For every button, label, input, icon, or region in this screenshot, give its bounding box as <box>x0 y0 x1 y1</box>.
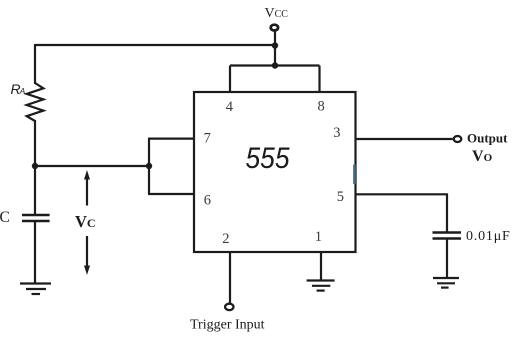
svg-text:5: 5 <box>337 189 344 205</box>
wire left vertical from top to resistor <box>34 44 36 84</box>
terminal Output circle <box>454 136 462 142</box>
wire top horizontal from RA to Vcc node <box>35 44 275 46</box>
node B junction dot (pins 6 and 7 tie) <box>146 163 152 169</box>
wire to pin 7 <box>148 138 194 140</box>
wire pin 5 horizontal <box>356 194 448 232</box>
svg-text:6: 6 <box>204 192 211 208</box>
svg-text:3: 3 <box>333 125 340 141</box>
node Vcc junction dot lower <box>272 62 278 68</box>
svg-text:8: 8 <box>318 98 325 114</box>
ground (pin 1) <box>307 281 335 291</box>
svg-text:VC: VC <box>75 212 96 231</box>
wire bracket vertical tying pin 7 to pin 6 <box>148 139 150 194</box>
svg-text:0.01μF: 0.01μF <box>466 229 511 244</box>
svg-text:C: C <box>0 209 10 226</box>
svg-text:2: 2 <box>222 231 229 247</box>
wire Vcc bus horizontal pins 4-8 <box>230 64 320 66</box>
wire pin 3 output horizontal <box>356 138 453 140</box>
wire capacitor C2 to ground <box>446 239 448 279</box>
wire capacitor C to ground <box>34 221 36 283</box>
node A junction dot (RA / C / wire to pins 6,7) <box>32 163 38 169</box>
svg-text:7: 7 <box>204 130 211 146</box>
svg-text:1: 1 <box>315 229 322 245</box>
wire pin 1 vertical <box>320 252 322 280</box>
terminal Vcc circle <box>271 25 278 31</box>
node Vcc junction dot upper <box>272 42 278 48</box>
terminal Trigger circle <box>225 304 233 310</box>
wire from resistor to node A <box>34 120 36 215</box>
svg-text:VO: VO <box>472 148 493 165</box>
wire pin 8 vertical <box>318 66 320 93</box>
label Vc with arrows <box>75 170 96 275</box>
capacitor C <box>22 215 50 221</box>
svg-text:VCC: VCC <box>265 6 289 21</box>
wire to pin 6 <box>148 193 194 195</box>
wire pin 4 vertical <box>229 66 231 93</box>
svg-text:555: 555 <box>246 142 291 175</box>
IC U1 555 timer body <box>194 92 356 252</box>
svg-text:RA: RA <box>11 81 26 97</box>
ground (below C2) <box>433 278 459 288</box>
ground (below C) <box>20 284 51 295</box>
resistor RA <box>27 83 44 121</box>
wire Vcc terminal down to bus <box>274 31 276 66</box>
svg-text:4: 4 <box>226 99 234 115</box>
wire node A to node B <box>35 165 149 167</box>
svg-text:Trigger Input: Trigger Input <box>190 318 265 333</box>
svg-text:Output: Output <box>467 131 508 146</box>
artifact blue mark on chip edge <box>353 165 356 185</box>
wire pin 2 trigger vertical <box>229 252 231 303</box>
capacitor C2 0.01uF <box>433 233 462 239</box>
